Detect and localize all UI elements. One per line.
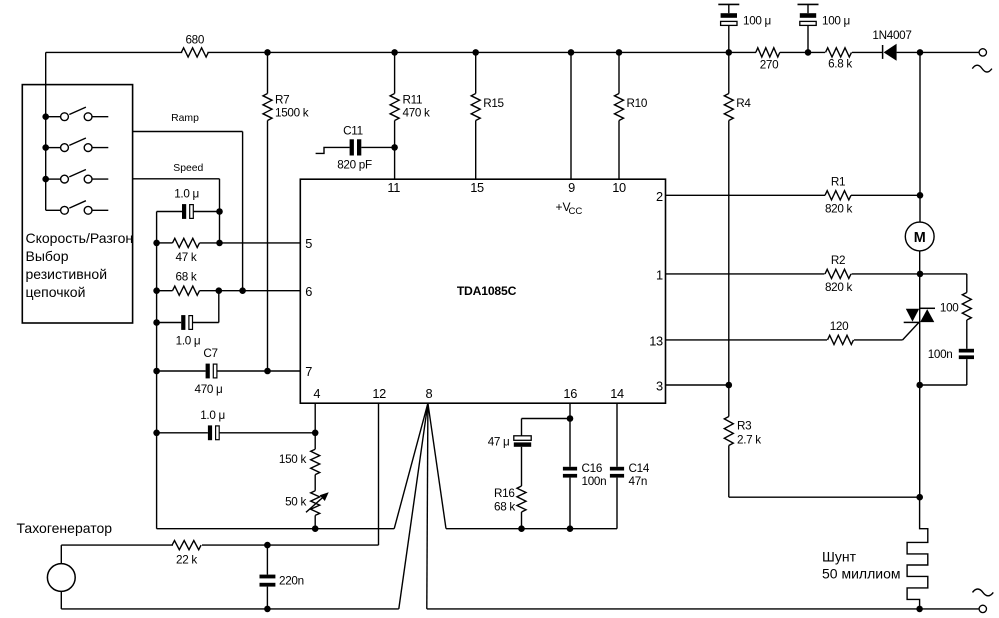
svg-text:680: 680 [185,34,204,47]
op-amp/IC U1 TDA1085C body [300,179,665,403]
svg-text:9: 9 [568,180,575,195]
junction C16 bottom [567,525,574,532]
svg-text:CC: CC [569,206,583,217]
terminal AC line (bottom) [979,605,986,612]
resistor R15 [471,52,480,179]
label Shunt line2 [822,566,900,582]
AC tilde symbol (bottom) [973,589,994,596]
designator C16 [582,462,603,475]
svg-text:1.0 μ: 1.0 μ [200,409,225,422]
junction pin16/47u tap [567,415,574,422]
svg-text:820 k: 820 k [825,281,853,294]
value label 47n [629,475,648,488]
designator R4 [736,97,751,110]
pin number 15 [470,180,484,195]
wire 150k to 50k [314,475,316,491]
pin number 8 [426,386,433,401]
pin number 10 [612,180,626,195]
net label Ramp [171,113,199,124]
resistor R11 470k [390,52,399,179]
capacitor 220n (tacho filter) [260,545,276,609]
value label 100n (snubber) [928,348,953,361]
resistor 22 k [172,541,201,550]
switch S2 (speed select) [42,138,108,152]
wire 68k to pin 6 [219,290,300,292]
designator R7 [275,93,289,106]
resistor R3 2.7k [724,385,733,497]
terminal AC line (top) [979,49,986,56]
wire top rail middle segment [207,51,728,53]
wire pin 8 ray to tacho return [399,403,428,609]
svg-text:R15: R15 [483,97,504,110]
wire rail junction to 270 [729,51,756,53]
svg-text:R4: R4 [736,97,751,110]
value label 100 u #1 [743,14,771,27]
value label 50 k [285,495,306,508]
value label 150 k [279,453,307,466]
label 1N4007 [872,29,911,42]
svg-text:5: 5 [305,236,312,251]
wire shunt to AC terminal (bottom) [920,608,980,610]
wire pin 12 drop [378,403,380,545]
value label 100 u #2 [822,14,850,27]
value label 47 k [176,251,197,264]
svg-text:470 μ: 470 μ [195,383,223,396]
svg-text:R1: R1 [831,175,845,188]
capacitor 1.0u #2 (across 68k) [157,291,219,330]
designator R15 [483,97,504,110]
resistor R4 [724,52,733,385]
designator R10 [627,97,648,110]
svg-text:R11: R11 [403,93,423,106]
wire Speed net vertical drop [219,179,221,243]
wire pin 16 drop [569,403,571,467]
value label 470 u [195,383,223,396]
junction rail/R11 [391,49,398,56]
box label line 3 [26,266,108,282]
wire rail 6.8k to diode [852,51,883,53]
designator R16 [494,487,515,500]
wire pin 8 ray to AC return [427,403,428,609]
wire motor to triac [919,251,921,385]
junction bus/cap3 [153,430,160,437]
pin number 12 [372,386,386,401]
wire snubber bottom [920,359,967,385]
potentiometer 50 k [306,491,329,516]
resistor 100 (snubber) [962,293,971,321]
value label 2.7 k [737,433,761,446]
value label 1500 k [275,107,309,120]
selector switch box outline [22,85,132,323]
junction 22k/220n [264,542,271,549]
wire rail between junction and 6.8k [808,51,825,53]
wire R2 to motor bottom [852,273,921,275]
junction R1/motor top [917,192,924,199]
pin number 1 [656,267,663,282]
svg-text:100 μ: 100 μ [822,14,850,27]
svg-text:R2: R2 [831,254,845,267]
value label 680 [185,34,204,47]
value label 820 k (R1) [825,202,853,215]
pin number 5 [305,236,312,251]
svg-text:14: 14 [610,386,624,401]
svg-text:1N4007: 1N4007 [872,29,911,42]
wire pin 4 drop [314,403,316,449]
value label 1.0 u #2 [176,335,201,348]
svg-text:R10: R10 [627,97,648,110]
wire pin 8 ray to right node rail [428,403,446,529]
value label 270 [760,58,779,71]
capacitor 47u (electrolytic) [514,436,531,447]
wire 22k to tacho [61,545,173,564]
wire pin 3 to R3 [666,384,729,386]
AC tilde symbol (top) [972,65,992,72]
capacitor C7 470u (ramp) [157,364,301,379]
pin number 13 [649,333,663,348]
box label line 4 [26,284,86,300]
switch S3 (speed select) [42,170,108,184]
svg-text:Шунт: Шунт [822,549,857,565]
resistor 68 k [157,286,219,295]
pin number 11 [387,180,400,195]
resistor 150 k [311,449,320,474]
resistor R2 820k [825,269,851,278]
pin number 7 [305,364,312,379]
capacitor 1.0u #1 (across 47k) [157,204,220,219]
junction shunt bottom / AC return [916,606,923,613]
wire pin 9 to rail [570,52,572,179]
label Shunt line1 [822,549,857,565]
wire pin12 to 22k [202,544,379,546]
triac Q1 [904,308,935,322]
svg-text:Ramp: Ramp [171,113,199,124]
resistor R16 68k [517,486,526,512]
junction pot bottom [312,525,319,532]
wire triac to shunt-top junction [919,385,921,497]
capacitor C14 47n [610,467,624,529]
svg-text:120: 120 [830,320,849,333]
value label 1.0 u #3 [200,409,225,422]
junction 220n/ground wire [264,606,271,613]
pin number 4 [313,386,320,401]
wire rail junction down to motor [919,52,921,222]
junction pin4/cap3 [312,430,319,437]
svg-text:100n: 100n [928,348,953,361]
junction R16 bottom [518,525,525,532]
value label 820 k (R2) [825,281,853,294]
wire 120 to gate bend [854,339,903,341]
box label line 2 [26,248,69,264]
svg-text:220n: 220n [279,574,304,587]
wire Speed net horizontal [133,178,220,180]
wire rail drop to switch bank [45,52,47,210]
junction rail/pin9 [568,49,575,56]
wire rail to AC terminal [920,51,979,53]
wire 50k to bottom node [314,515,316,528]
wire left-bottom node rail (y=528.7) [157,528,395,530]
shunt resistor 50 milliohm (current sense) [907,497,928,609]
designator C11 [343,124,363,137]
value label 68 k (R16) [494,501,515,514]
value label 100 [940,302,959,315]
designator C7 [203,347,217,360]
value label 100n (C16) [582,475,607,488]
value label 22 k [176,554,197,567]
wire left bus vertical (x=156.6) [156,212,158,529]
junction rail/motor-branch [917,49,924,56]
junction pin3/R4/R3 [726,382,733,389]
junction bus/68k [153,287,160,294]
capacitor 100n (snubber) [959,349,974,359]
designator R1 [831,175,845,188]
junction bus/47k [153,240,160,247]
tachogenerator G1 [47,564,75,592]
svg-text:1500 k: 1500 k [275,107,309,120]
switch S4 (speed select) [46,201,109,215]
wire right-bottom node rail (y=528.7) [446,528,617,530]
junction bus/C7 [153,368,160,375]
motor letter M [914,230,926,246]
svg-text:100: 100 [940,302,959,315]
value label 820 pF [337,159,372,172]
resistor 680 (series supply dropper) [181,48,208,57]
value label 1.0 u #1 [174,188,199,201]
pin number 2 [656,189,663,204]
svg-text:C7: C7 [203,347,217,360]
svg-text:8: 8 [426,386,433,401]
svg-text:270: 270 [760,58,779,71]
svg-text:100 μ: 100 μ [743,14,771,27]
svg-text:6.8 k: 6.8 k [828,58,852,71]
svg-text:150 k: 150 k [279,453,307,466]
resistor 6.8 k [826,48,852,57]
wire Ramp net vertical drop [242,132,244,291]
svg-text:Выбор: Выбор [26,248,69,264]
wire snubber mid [966,320,968,349]
svg-text:820 k: 820 k [825,202,853,215]
resistor R10 [615,52,624,179]
resistor R7 1500k [263,52,272,371]
value label 47 u [488,435,510,448]
label Tachogenerator [17,520,113,536]
value label 220n [279,574,304,587]
wire R2 junction to snubber [920,273,967,275]
svg-text:22 k: 22 k [176,554,197,567]
svg-text:12: 12 [372,386,386,401]
capacitor 100u #2 (electrolytic, reservoir) [798,4,819,52]
svg-text:Тахогенератор: Тахогенератор [17,520,113,536]
junction triac MT1 / snubber return [916,382,923,389]
wire rail between 270 and C-100u-2 [780,51,808,53]
svg-text:TDA1085C: TDA1085C [457,284,517,298]
svg-text:13: 13 [649,333,663,348]
wire 47u to R16 [521,447,523,486]
capacitor C11 820pF [316,139,395,155]
box label line 1 [26,230,134,246]
svg-text:6: 6 [305,284,312,299]
value label 6.8 k [828,58,852,71]
wire Ramp net horizontal [133,131,243,133]
svg-text:15: 15 [470,180,484,195]
junction R2/motor bottom [917,271,924,278]
motor M1 (universal motor) [905,222,934,251]
wire top AC supply rail left segment [46,51,183,53]
capacitor C16 100n [563,467,577,529]
pin number 14 [610,386,624,401]
supply label +VCC [556,200,583,217]
wire R16 to bottom [521,512,523,529]
svg-text:68 k: 68 k [176,270,197,283]
wire tacho bottom [61,591,399,609]
svg-text:11: 11 [387,180,400,195]
svg-text:50 k: 50 k [285,495,306,508]
wire 47k to pin 5 [220,242,301,244]
junction rail/C-100u-1 [726,49,733,56]
svg-text:C11: C11 [343,124,363,137]
svg-text:резистивной: резистивной [26,266,108,282]
IC name TDA1085C [457,284,517,298]
diode D1 1N4007 [883,44,920,61]
junction C7/R7-drop [264,368,271,375]
designator R2 [831,254,845,267]
svg-text:R7: R7 [275,93,289,106]
pin number 6 [305,284,312,299]
junction R11/C11 (pin 11 net) [391,144,398,151]
junction 68k/cap2 [216,287,223,294]
wire pin 13 to 120 [666,339,828,341]
svg-text:2.7 k: 2.7 k [737,433,761,446]
svg-text:470 k: 470 k [403,107,431,120]
svg-text:16: 16 [563,386,577,401]
junction shunt top [916,494,923,501]
capacitor 1.0u #3 (pin 4) [157,425,316,440]
svg-text:Скорость/Разгон: Скорость/Разгон [26,230,134,246]
svg-text:4: 4 [313,386,320,401]
wire R1 to motor branch [851,194,920,196]
resistor 270 [756,48,780,57]
resistor 120 (gate) [828,335,854,344]
designator C14 [629,462,650,475]
svg-text:820 pF: 820 pF [337,159,372,172]
svg-text:Speed: Speed [173,163,203,174]
svg-text:3: 3 [656,379,663,394]
designator R3 [737,419,751,432]
svg-text:1.0 μ: 1.0 μ [174,188,199,201]
wire pin 14 drop [616,403,618,467]
switch S1 (speed select) [42,107,108,121]
junction rail/C-100u-2 [805,49,812,56]
resistor 47 k [157,238,220,247]
junction rail/R7 [264,49,271,56]
wire pin 1 to R2 [666,273,825,275]
pin number 3 [656,379,663,394]
junction rail/R10 [616,49,623,56]
junction cap1/speed net [216,208,223,215]
wire 47u tap horizontal [522,419,571,436]
svg-text:47 k: 47 k [176,251,197,264]
svg-text:R16: R16 [494,487,515,500]
junction 68k/ramp [239,287,246,294]
net label Speed [173,163,203,174]
wire AC return bottom (y=608.9) [427,608,920,610]
svg-text:68 k: 68 k [494,501,515,514]
wire pin 8 ray to left node rail [394,403,428,529]
svg-text:10: 10 [612,180,626,195]
svg-text:1: 1 [656,267,663,282]
capacitor 100u #1 (electrolytic, reservoir) [718,4,739,52]
wire gate diagonal [903,323,919,340]
value label 470 k [403,107,431,120]
svg-text:M: M [914,230,926,246]
svg-text:7: 7 [305,364,312,379]
pin number 9 [568,180,575,195]
value label 68 k [176,270,197,283]
value label 120 [830,320,849,333]
designator R11 [403,93,423,106]
svg-text:47 μ: 47 μ [488,435,510,448]
svg-text:1.0 μ: 1.0 μ [176,335,201,348]
svg-text:C16: C16 [582,462,603,475]
wire snubber drop [966,274,968,293]
svg-text:R3: R3 [737,419,751,432]
svg-text:2: 2 [656,189,663,204]
svg-text:50 миллиом: 50 миллиом [822,566,900,582]
resistor R1 820k [825,191,851,200]
junction rail/R15 [472,49,479,56]
wire pin 2 to R1 [666,194,826,196]
svg-text:100n: 100n [582,475,607,488]
svg-text:47n: 47n [629,475,648,488]
svg-text:C14: C14 [629,462,650,475]
svg-text:цепочкой: цепочкой [26,284,86,300]
wire R3 bottom to shunt top [729,496,920,498]
junction 47k/speed [216,240,223,247]
junction bus/cap2 [153,319,160,326]
pin number 16 [563,386,577,401]
